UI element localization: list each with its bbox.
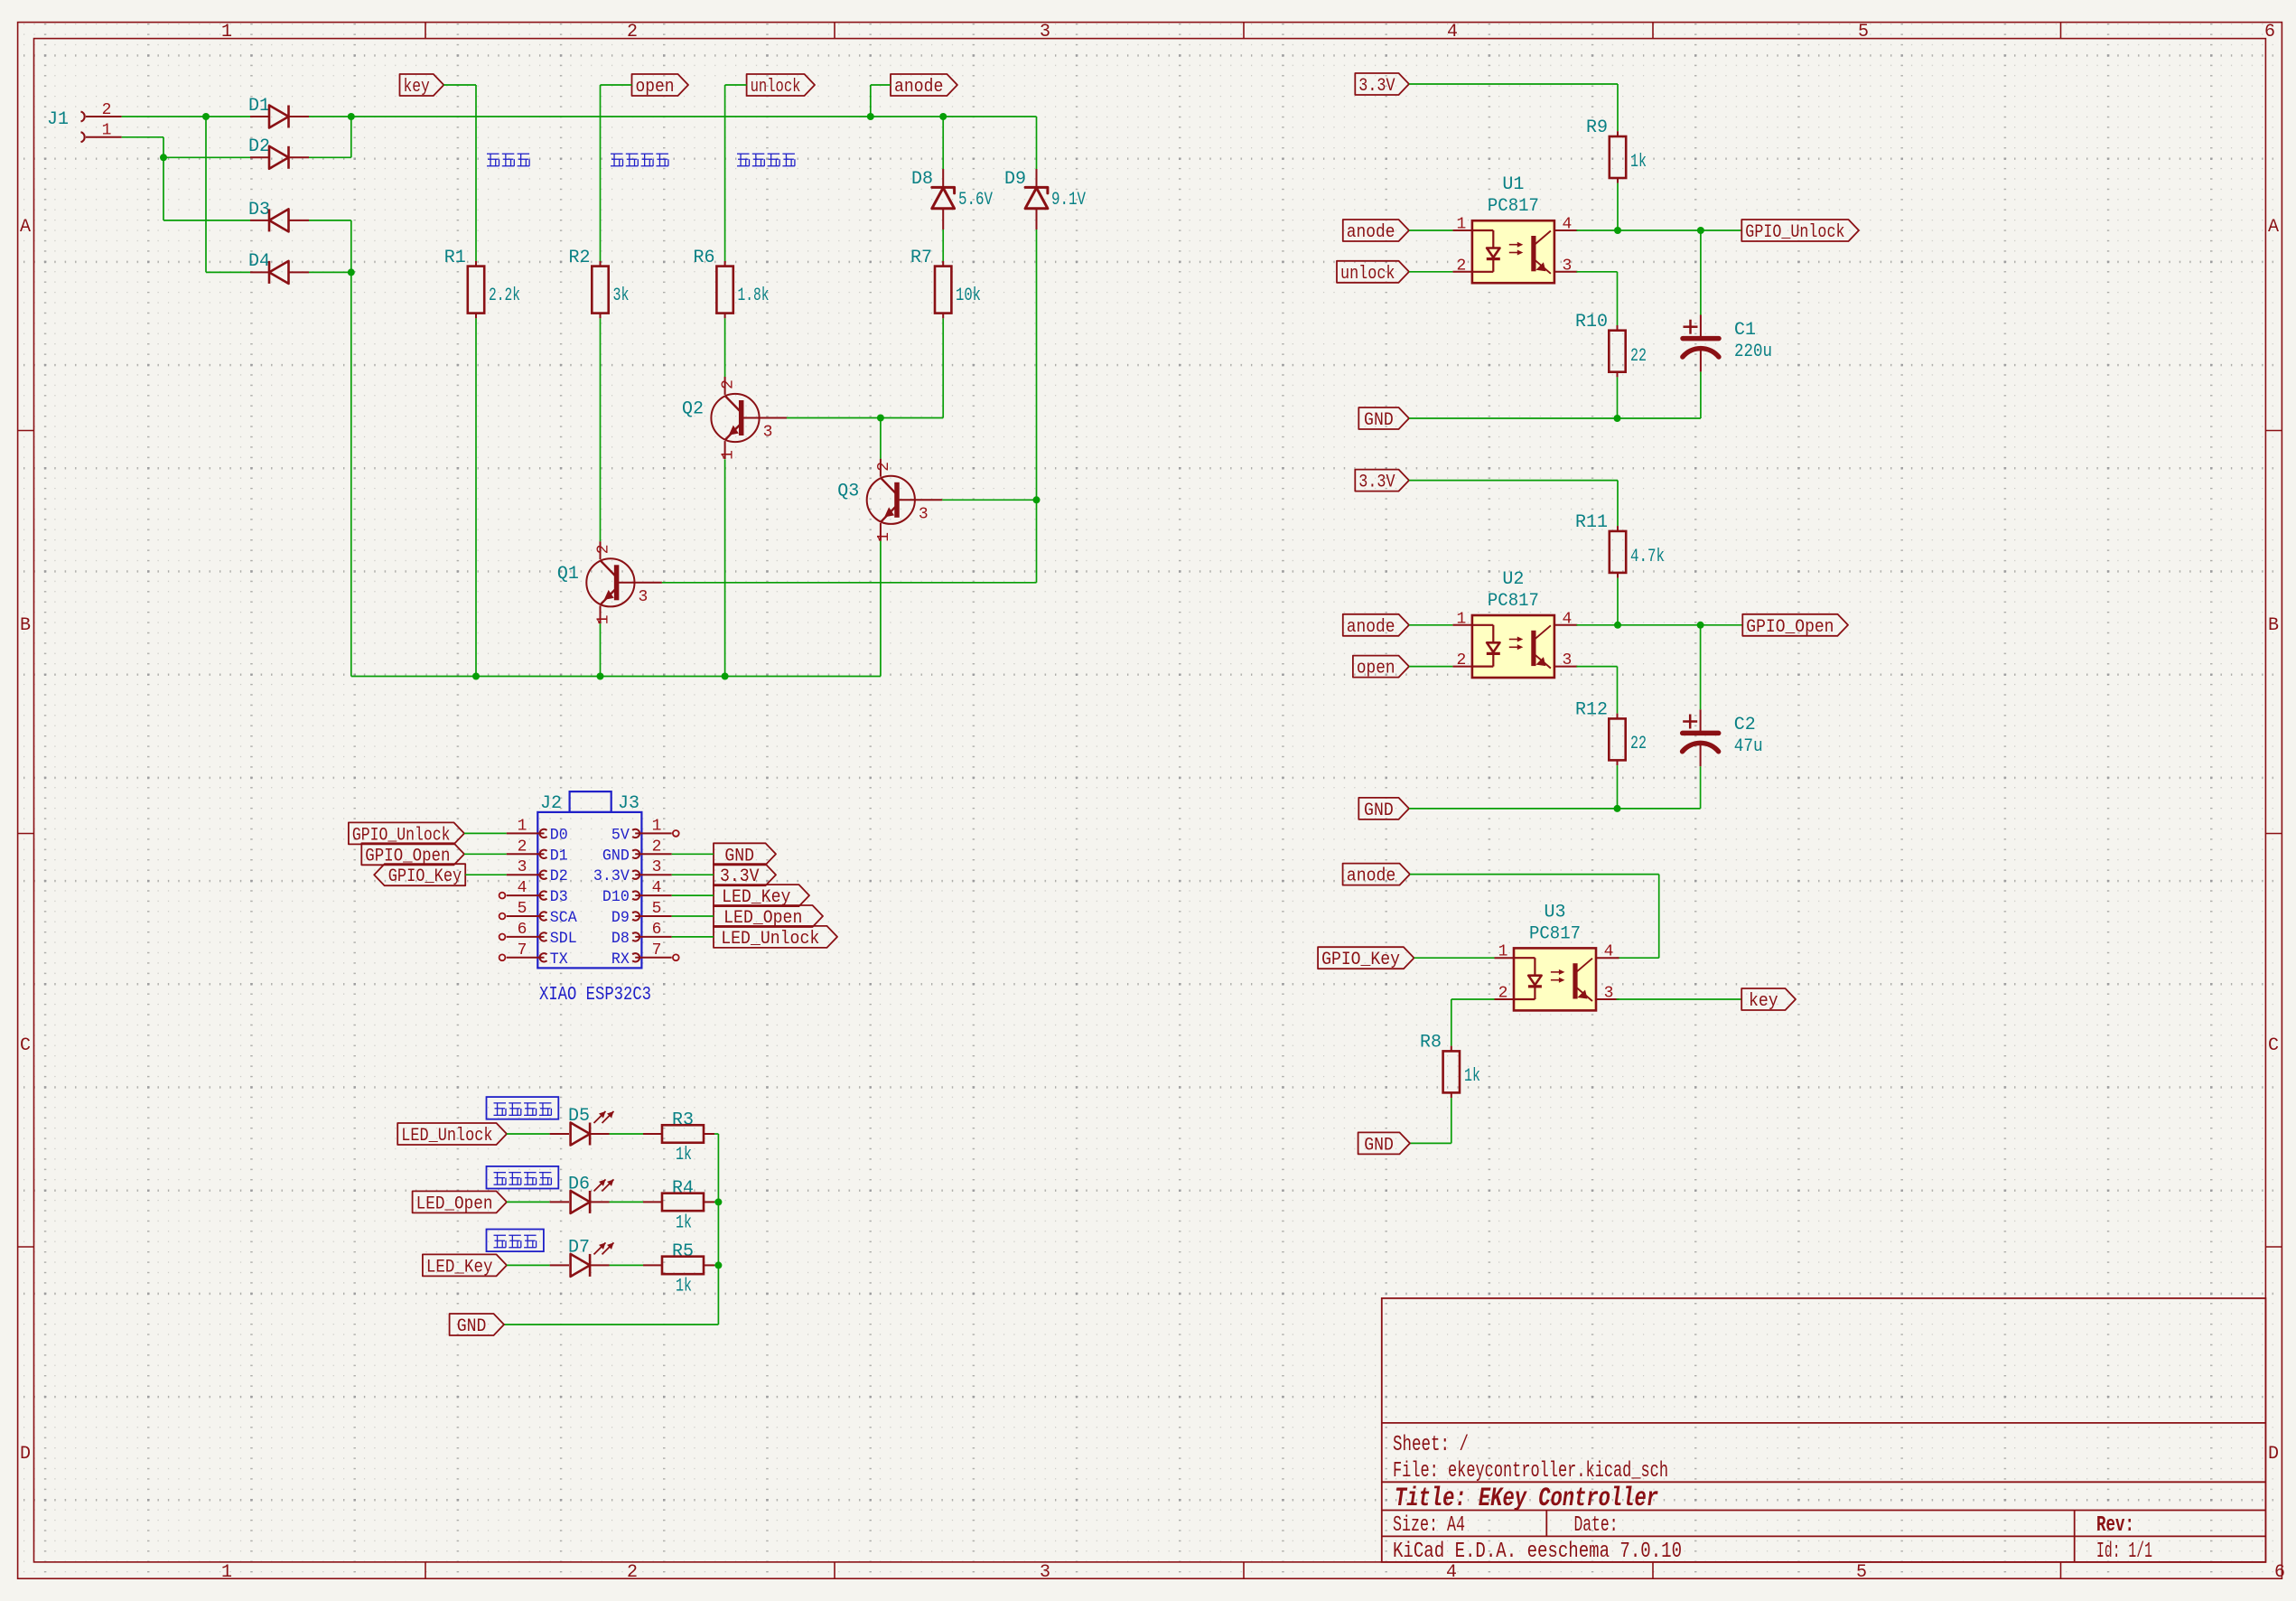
svg-text:5.6V: 5.6V [958, 190, 993, 211]
wire U1 pin4 net [1576, 229, 1741, 231]
svg-text:3: 3 [652, 858, 662, 876]
svg-text:A: A [20, 217, 31, 238]
junction node D [348, 268, 355, 276]
svg-text:Title: EKey Controller: Title: EKey Controller [1395, 1484, 1658, 1514]
LED D7 [550, 1237, 614, 1277]
wire R9 to pin4 net [1617, 183, 1619, 230]
global label key U3 [1741, 988, 1796, 1012]
wire node D down to bottom rail [351, 272, 881, 676]
XIAO right pin 1 5V [611, 817, 679, 844]
optocoupler U3 [1495, 902, 1619, 1010]
svg-text:R2: R2 [568, 248, 590, 268]
svg-text:B: B [20, 615, 31, 636]
svg-text:1: 1 [102, 122, 112, 140]
svg-text:J2: J2 [540, 793, 562, 814]
global label GND led section [450, 1314, 504, 1337]
svg-text:Q2: Q2 [682, 399, 704, 420]
svg-text:D2: D2 [550, 867, 568, 885]
diode D1 [248, 96, 309, 128]
svg-text:4: 4 [518, 879, 527, 897]
global label GPIO_Unlock at XIAO [349, 822, 464, 846]
svg-text:GPIO_Key: GPIO_Key [388, 866, 462, 887]
svg-text:6: 6 [2274, 1562, 2285, 1583]
LED D5 [550, 1106, 614, 1146]
diode D2 [248, 136, 309, 169]
svg-text:9.1V: 9.1V [1051, 190, 1086, 211]
wire main top net [351, 116, 1037, 117]
resistor R4 [643, 1178, 714, 1234]
svg-text:D8: D8 [911, 169, 933, 190]
svg-text:J3: J3 [618, 793, 639, 814]
svg-text:R7: R7 [910, 248, 932, 268]
svg-text:SCA: SCA [550, 909, 577, 927]
XIAO right pin 3 3.3V [593, 858, 672, 885]
XIAO left pin 4 D3 [499, 879, 568, 906]
wire R3 east [714, 1133, 718, 1135]
svg-text:2: 2 [102, 101, 112, 119]
svg-text:1: 1 [1498, 943, 1508, 961]
svg-text:D0: D0 [550, 826, 568, 844]
wire anode U2 [1409, 624, 1452, 626]
resistor R12 [1575, 700, 1647, 766]
junction R10 GND [1614, 415, 1621, 422]
svg-text:GND: GND [457, 1316, 487, 1337]
svg-text:LED_Unlock: LED_Unlock [721, 929, 819, 950]
wire U3 pin2 to R8 [1451, 999, 1495, 1046]
svg-text:2: 2 [627, 22, 638, 42]
global label anode U2 [1343, 614, 1409, 638]
wire U2 pin3 to R12 [1576, 667, 1617, 714]
wire Q2 base to R7 column [787, 318, 943, 417]
global label LED_Unlock at XIAO [714, 926, 837, 950]
svg-text:Size: A4: Size: A4 [1393, 1513, 1465, 1538]
XIAO right pin 5 D9 [611, 900, 672, 927]
svg-text:6: 6 [2264, 22, 2275, 42]
wire D8 to R7 [942, 229, 944, 261]
wire key to R1 [443, 85, 476, 261]
wire C1 top [1700, 230, 1702, 315]
wire R8 to GND [1410, 1098, 1451, 1143]
wire LED_Key to D7 [507, 1264, 550, 1266]
svg-text:D: D [2268, 1444, 2279, 1465]
optocoupler U1 [1452, 174, 1577, 283]
svg-text:XIAO ESP32C3: XIAO ESP32C3 [539, 985, 651, 1006]
svg-text:3: 3 [1562, 257, 1572, 275]
svg-text:4: 4 [1562, 610, 1572, 628]
svg-text:2: 2 [627, 1562, 638, 1583]
svg-text:3: 3 [1040, 1562, 1050, 1583]
svg-text:GPIO_Unlock: GPIO_Unlock [1745, 222, 1844, 243]
svg-text:4.7k: 4.7k [1630, 547, 1665, 567]
svg-text:J1: J1 [47, 109, 69, 130]
svg-text:PC817: PC817 [1488, 591, 1539, 612]
XIAO right pin 7 RX [611, 941, 679, 969]
wire 3.3V xiao [672, 874, 714, 875]
svg-text:C1: C1 [1734, 320, 1756, 341]
wire D6 to R4 [610, 1201, 644, 1203]
svg-text:3.3V: 3.3V [593, 867, 630, 885]
svg-text:A: A [2268, 217, 2279, 238]
svg-text:LED_Open: LED_Open [416, 1194, 493, 1214]
resistor R2 [568, 248, 629, 318]
svg-text:10k: 10k [956, 286, 981, 306]
wire GPIO_Unlock to D0 [464, 832, 507, 834]
wire Q3 emitter to rail [880, 541, 882, 677]
svg-text:GND: GND [1364, 800, 1394, 821]
wire U1 pin3 to R10 [1576, 272, 1617, 325]
svg-text:D10: D10 [602, 888, 630, 906]
wire Q3 collector east [942, 499, 1036, 501]
svg-text:R11: R11 [1575, 512, 1608, 533]
svg-text:U3: U3 [1544, 902, 1565, 922]
XIAO left pin 1 D0 [507, 817, 568, 844]
svg-text:220u: 220u [1734, 342, 1772, 362]
svg-text:5: 5 [1856, 1562, 1867, 1583]
module U-XIAO ESP32C3 body [537, 791, 651, 1006]
zener diode D8 [911, 169, 993, 229]
svg-text:5: 5 [652, 900, 662, 918]
wire GND xiao [672, 853, 714, 855]
resistor R7 [910, 248, 981, 318]
svg-text:R5: R5 [672, 1241, 694, 1262]
svg-text:PC817: PC817 [1529, 923, 1581, 944]
svg-text:22: 22 [1630, 734, 1647, 754]
svg-text:2: 2 [518, 838, 527, 856]
wire R1 to rail [475, 318, 477, 676]
svg-text:D: D [20, 1444, 31, 1465]
wire D5 to R3 [610, 1133, 644, 1135]
resistor R8 [1420, 1033, 1480, 1099]
svg-text:GND: GND [1364, 1135, 1394, 1156]
wire node B down to D3 row [163, 157, 250, 220]
LED D6 [550, 1174, 614, 1213]
svg-text:3.3V: 3.3V [1358, 76, 1395, 97]
wire LED_Key xiao [672, 894, 714, 896]
svg-text:B: B [2268, 615, 2279, 636]
wire node B to D2 [163, 156, 250, 158]
transistor Q3 [837, 459, 942, 542]
global label GND U3 [1358, 1132, 1410, 1156]
diode D3 [248, 200, 309, 231]
wire LED_Unlock xiao [672, 936, 714, 938]
svg-text:4: 4 [1604, 943, 1614, 961]
wire Q1 emitter to rail [600, 623, 602, 676]
XIAO left pin 5 SCA [499, 900, 578, 927]
resistor R5 [643, 1241, 714, 1297]
svg-text:6: 6 [652, 921, 662, 939]
svg-text:unlock: unlock [1340, 264, 1395, 285]
svg-text:anode: anode [1347, 617, 1395, 638]
XIAO left pin 3 D2 [507, 858, 568, 885]
wire D9 node down to Q1 base [1036, 500, 1038, 583]
svg-text:key: key [404, 77, 430, 98]
junction R9 pin4 [1614, 227, 1621, 234]
wire R11 to pin4 net [1617, 578, 1619, 625]
junction node A [202, 113, 210, 120]
wire D7 to R5 [610, 1264, 644, 1266]
wire D1 cathode to node C [309, 116, 351, 117]
wire J1.1 to node B [122, 137, 163, 158]
svg-text:2: 2 [595, 544, 613, 554]
svg-text:Sheet: /: Sheet: / [1393, 1433, 1469, 1457]
transistor Q2 [682, 377, 787, 460]
note 開扉表示 top [611, 154, 668, 166]
svg-text:1k: 1k [676, 1276, 692, 1297]
global label open [632, 74, 689, 98]
global label LED_Unlock [397, 1123, 507, 1147]
svg-text:1: 1 [221, 22, 232, 42]
wire R10 to GND net [1617, 377, 1619, 418]
svg-text:R4: R4 [672, 1178, 694, 1199]
diode D4 [248, 251, 309, 284]
resistor R10 [1575, 312, 1647, 377]
XIAO left pin 2 D1 [507, 838, 568, 865]
optocoupler U2 [1452, 569, 1577, 678]
svg-text:1k: 1k [1630, 152, 1647, 173]
transistor Q1 [557, 541, 662, 624]
global label GND U1 [1358, 407, 1409, 431]
global label unlock [747, 74, 815, 98]
wire R2 to Q1 [600, 318, 602, 541]
global label open U2 [1353, 656, 1409, 679]
svg-text:4: 4 [1447, 22, 1458, 42]
svg-text:D8: D8 [611, 930, 630, 948]
svg-text:LED_Unlock: LED_Unlock [401, 1126, 492, 1147]
resistor R3 [643, 1110, 714, 1166]
wire U2 pin4 net [1576, 624, 1742, 626]
global label LED_Key at XIAO [714, 885, 809, 908]
svg-text:3: 3 [1562, 651, 1572, 669]
resistor R11 [1575, 512, 1665, 578]
wire LED_Open to D6 [507, 1201, 550, 1203]
svg-text:U1: U1 [1502, 174, 1524, 195]
svg-text:3: 3 [763, 424, 773, 442]
global label GPIO_Open U2 [1742, 614, 1848, 638]
svg-text:R6: R6 [693, 248, 714, 268]
svg-text:D3: D3 [550, 888, 568, 906]
global label 3.3V U2 [1355, 470, 1409, 493]
wire GND U2 [1409, 766, 1701, 809]
svg-text:D1: D1 [550, 847, 568, 865]
connector J1 [47, 101, 122, 142]
svg-text:4: 4 [1446, 1562, 1457, 1583]
zener diode D9 [1004, 169, 1086, 229]
wire 3.3V to R11 [1409, 481, 1618, 527]
capacitor C1 [1683, 315, 1772, 372]
XIAO right pin 6 D8 [611, 921, 672, 948]
svg-text:Rev:: Rev: [2096, 1513, 2134, 1538]
svg-text:D2: D2 [248, 136, 270, 157]
global label LED_Key [423, 1254, 507, 1278]
wire anode to main net [871, 85, 891, 117]
svg-text:1: 1 [1456, 216, 1466, 234]
note blue box D7 [487, 1230, 544, 1252]
wire GND U1 [1409, 371, 1701, 418]
svg-text:1: 1 [875, 532, 893, 542]
wire anode U3 [1410, 875, 1659, 959]
junction R11 pin4 [1614, 622, 1621, 629]
wire open U2 [1409, 666, 1452, 668]
wire U3 pin3 to key [1617, 998, 1742, 1000]
svg-text:1: 1 [720, 450, 738, 460]
svg-text:RX: RX [611, 950, 630, 969]
wire unlock to R6 [725, 85, 747, 261]
svg-text:Q3: Q3 [837, 481, 859, 501]
wire LED_Open xiao [672, 915, 714, 917]
svg-text:C: C [2268, 1035, 2279, 1056]
global label GPIO_Key U3 [1318, 947, 1414, 970]
wire J1.2 to D1 and node A [122, 116, 250, 117]
svg-text:2: 2 [875, 462, 893, 472]
svg-text:1: 1 [595, 614, 613, 624]
wire R12 to GND net [1617, 765, 1619, 809]
resistor R1 [444, 248, 520, 318]
wire anode U1 [1409, 229, 1452, 231]
svg-text:key: key [1749, 991, 1778, 1012]
junction node C [348, 113, 355, 120]
wire D3 to D4 node D [309, 220, 351, 273]
svg-text:3: 3 [518, 858, 527, 876]
global label anode U1 [1343, 220, 1409, 243]
svg-text:7: 7 [518, 941, 527, 960]
svg-text:1: 1 [1456, 610, 1466, 628]
junction Q3 D9 node [1033, 496, 1041, 503]
wire down to D8 [942, 117, 944, 169]
global label anode top [891, 74, 957, 98]
resistor R6 [693, 248, 769, 318]
svg-text:GND: GND [602, 847, 630, 865]
note blue box D6 [487, 1166, 559, 1189]
junction R1 rail [472, 673, 480, 680]
svg-text:2: 2 [720, 379, 738, 389]
svg-text:D1: D1 [248, 96, 270, 117]
global label anode U3 [1343, 864, 1410, 887]
svg-text:1: 1 [221, 1562, 232, 1583]
svg-text:4: 4 [652, 879, 662, 897]
wire 3.3V to R9 [1409, 84, 1618, 131]
svg-text:3k: 3k [613, 286, 630, 306]
svg-text:D9: D9 [611, 909, 630, 927]
svg-text:22: 22 [1630, 346, 1647, 367]
svg-text:2: 2 [1498, 985, 1508, 1003]
svg-text:LED_Key: LED_Key [426, 1257, 493, 1278]
global label GPIO_Key at XIAO [374, 864, 465, 887]
wire Q1 base east [662, 582, 1037, 584]
wire node A down to D4 row [206, 117, 250, 272]
svg-text:TX: TX [550, 950, 568, 969]
svg-text:Id: 1/1: Id: 1/1 [2096, 1540, 2152, 1564]
junction D8 column [939, 113, 947, 120]
XIAO right pin 4 D10 [602, 879, 672, 906]
title block [1382, 1298, 2266, 1564]
svg-text:D4: D4 [248, 251, 270, 272]
svg-text:PC817: PC817 [1488, 196, 1539, 217]
svg-text:3: 3 [1040, 22, 1050, 42]
capacitor C2 [1683, 709, 1763, 766]
svg-text:2.2k: 2.2k [489, 286, 520, 306]
junction LED R5 [714, 1261, 722, 1269]
svg-text:7: 7 [652, 941, 662, 960]
svg-text:2: 2 [1456, 651, 1466, 669]
wire node C down to D2 cathode [309, 117, 351, 157]
global label 3.3V U1 [1355, 73, 1409, 97]
wire open to R2 [601, 85, 632, 261]
junction C2 pin4 [1697, 622, 1704, 629]
XIAO left pin 6 SDL [499, 921, 577, 948]
svg-text:1: 1 [652, 817, 662, 835]
svg-text:R9: R9 [1586, 117, 1608, 138]
note blue box D5 [487, 1097, 559, 1119]
svg-text:1: 1 [518, 817, 527, 835]
note 施解錠 top [487, 154, 529, 166]
global label key [400, 74, 444, 98]
global label GND at XIAO [714, 843, 776, 866]
svg-text:5: 5 [518, 900, 527, 918]
svg-text:D3: D3 [248, 200, 270, 220]
svg-text:GND: GND [1364, 410, 1394, 431]
wire GPIO_Key to D2 [465, 874, 507, 875]
svg-text:2: 2 [1456, 257, 1466, 275]
wire R4 east [714, 1201, 718, 1203]
global label GPIO_Unlock U1 [1741, 220, 1859, 243]
svg-text:3.3V: 3.3V [1358, 473, 1395, 493]
wire GPIO_Open to D1 [464, 853, 507, 855]
svg-text:U2: U2 [1502, 569, 1524, 590]
wire GPIO_Key U3 [1414, 957, 1495, 959]
junction Q1 rail [597, 673, 604, 680]
svg-text:R8: R8 [1420, 1033, 1442, 1053]
svg-text:47u: 47u [1734, 736, 1763, 757]
wire R5 east [714, 1264, 718, 1266]
svg-text:GPIO_Key: GPIO_Key [1321, 950, 1400, 970]
XIAO right pin 2 GND [602, 838, 672, 865]
global label GPIO_Open at XIAO [361, 843, 464, 866]
resistor R9 [1586, 117, 1647, 183]
svg-text:1k: 1k [1464, 1066, 1480, 1087]
junction R12 GND [1614, 805, 1621, 812]
wire LED_Unlock to D5 [507, 1133, 550, 1135]
svg-text:C2: C2 [1734, 715, 1756, 735]
svg-text:6: 6 [518, 921, 527, 939]
svg-text:anode: anode [894, 77, 943, 98]
svg-text:anode: anode [1347, 866, 1396, 887]
svg-text:Date:: Date: [1574, 1513, 1619, 1538]
junction anode node [867, 113, 874, 120]
junction Q2 rail [722, 673, 729, 680]
svg-text:open: open [636, 77, 675, 98]
wire junction down to Q3 [880, 418, 882, 459]
wire C2 top [1700, 625, 1702, 710]
svg-text:5V: 5V [611, 826, 630, 844]
svg-text:R12: R12 [1575, 700, 1608, 721]
global label LED_Open [413, 1191, 507, 1214]
svg-text:1k: 1k [676, 1212, 692, 1233]
svg-text:C: C [20, 1035, 31, 1056]
global label unlock U1 [1337, 261, 1409, 285]
svg-text:3: 3 [919, 505, 929, 523]
svg-text:1k: 1k [676, 1145, 692, 1166]
wire D9 to Q3 node [1036, 229, 1038, 500]
svg-text:anode: anode [1347, 222, 1395, 243]
svg-text:GPIO_Open: GPIO_Open [1746, 617, 1834, 638]
svg-text:Q1: Q1 [557, 564, 579, 585]
svg-text:R10: R10 [1575, 312, 1608, 332]
svg-text:open: open [1357, 659, 1395, 679]
svg-text:5: 5 [1858, 22, 1869, 42]
svg-text:R3: R3 [672, 1110, 694, 1131]
wire LED common vertical [504, 1134, 718, 1325]
wire main net corner down to D9 [1036, 117, 1038, 169]
